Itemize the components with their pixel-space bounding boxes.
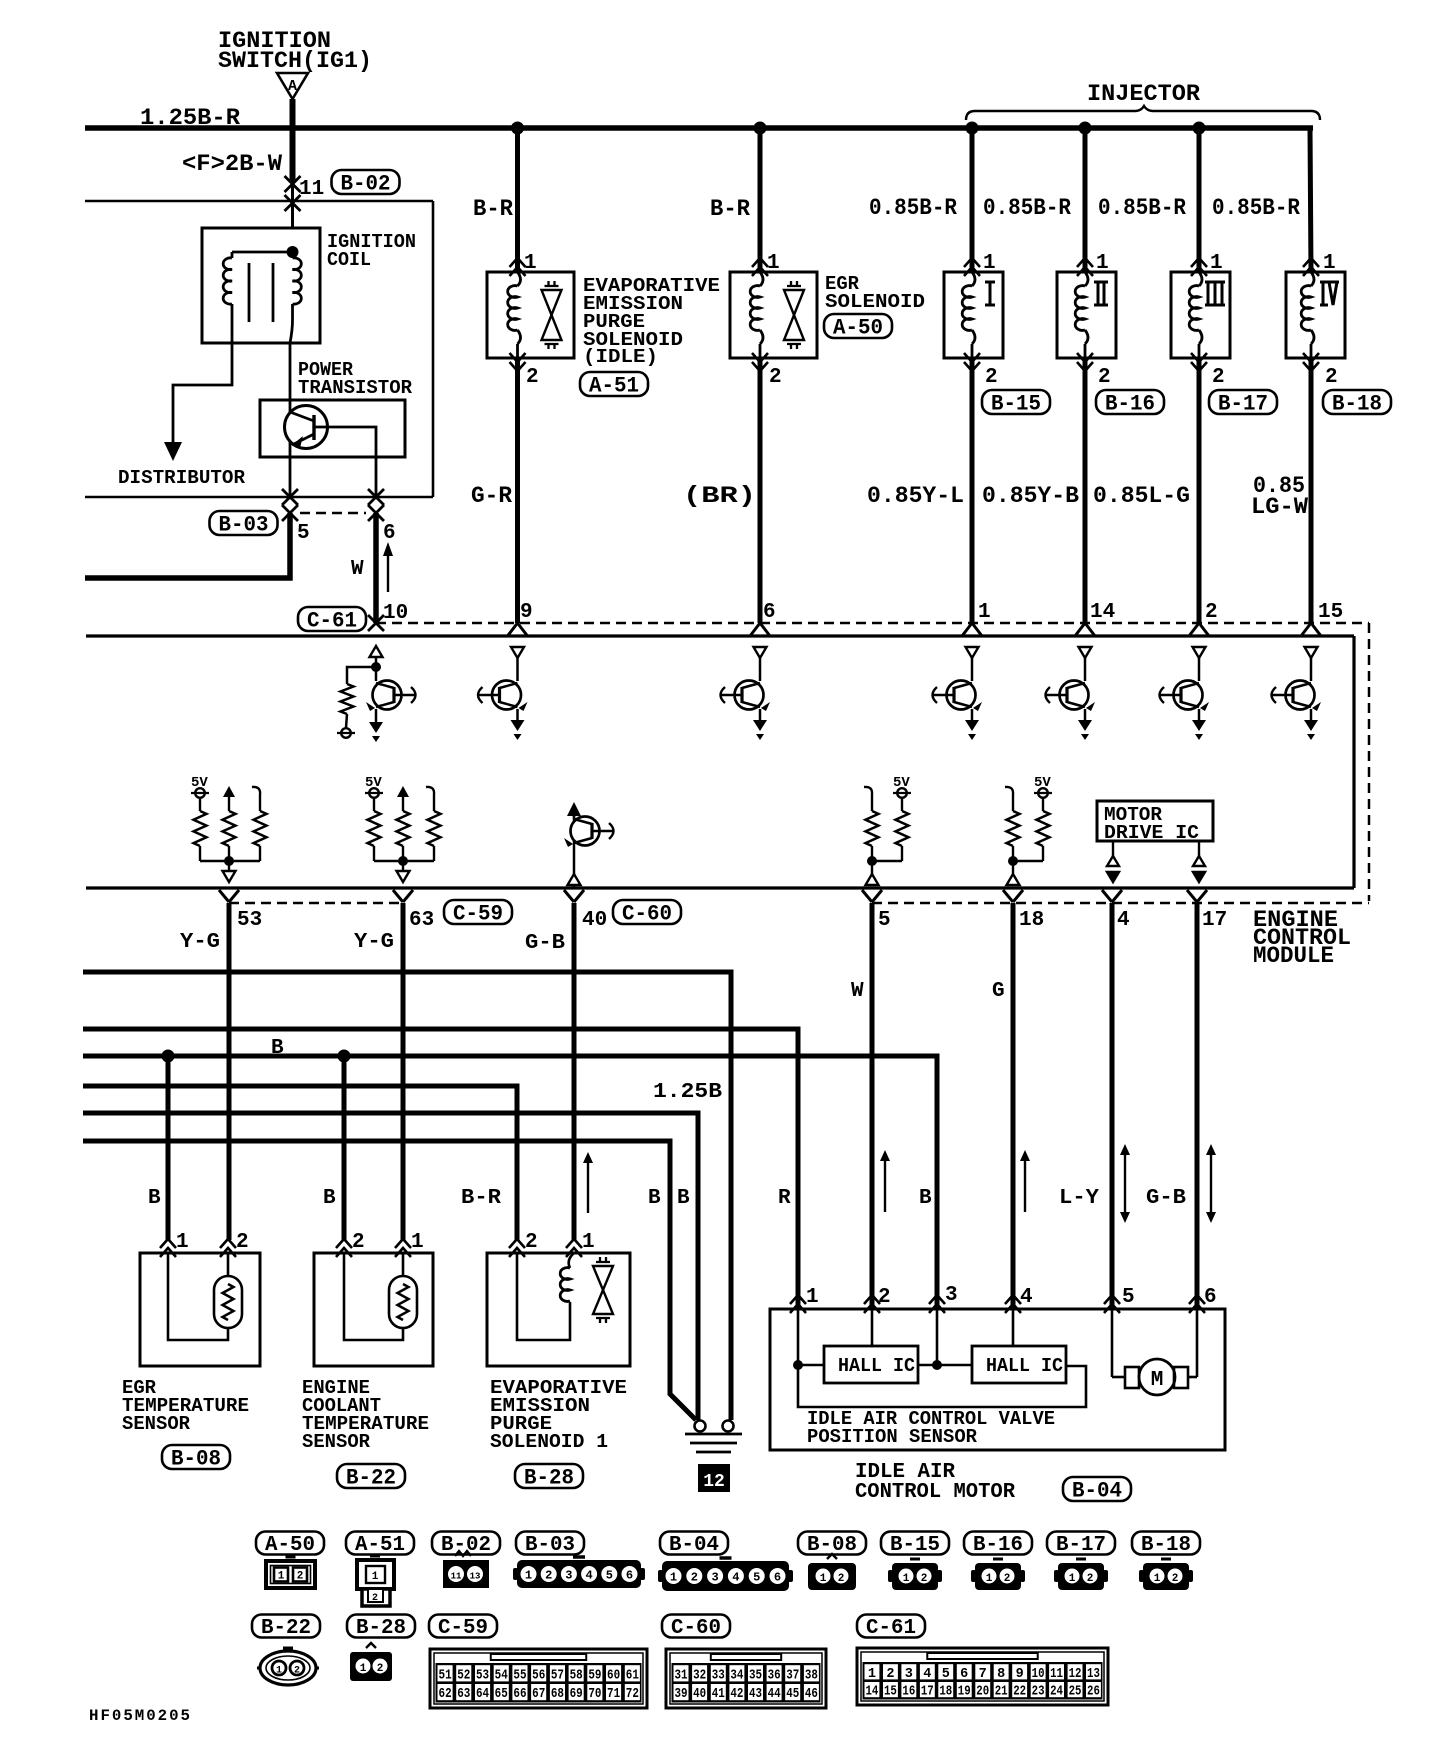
IAC motor M	[1111, 1309, 1114, 1377]
svg-text:67: 67	[532, 1687, 545, 1702]
distributor arrow	[164, 442, 182, 461]
connector table B-15	[881, 1532, 949, 1555]
wire rail to evaporative purge solenoid (idle)	[515, 128, 520, 272]
svg-text:0.85Y-L: 0.85Y-L	[867, 483, 964, 509]
svg-text:2: 2	[1205, 601, 1218, 624]
svg-text:5: 5	[1122, 1286, 1135, 1309]
bus line B-R to evap solenoid1 pin2	[83, 1086, 517, 1240]
svg-text:(IDLE): (IDLE)	[583, 346, 658, 368]
svg-text:20: 20	[976, 1685, 989, 1700]
svg-text:6: 6	[960, 1667, 968, 1682]
IAC pin 2 connector mark	[864, 1295, 880, 1313]
svg-text:4: 4	[923, 1667, 931, 1682]
IAC position sensor hall IC 1	[824, 1346, 918, 1383]
ECM input transistor at x=972	[966, 647, 979, 658]
connector label C-60	[613, 900, 681, 924]
svg-text:1: 1	[806, 1286, 819, 1309]
svg-text:25: 25	[1069, 1685, 1082, 1700]
svg-text:2: 2	[377, 1663, 384, 1675]
wire G-B pin17 to IAC pin6	[1195, 903, 1200, 1309]
wire evap solenoid to ECM pin 9 G-R	[515, 358, 520, 623]
connector label B-15	[982, 390, 1050, 414]
svg-text:37: 37	[786, 1668, 799, 1683]
ECM bottom pin 5 connector mark	[862, 890, 882, 902]
connector table B-03	[516, 1532, 584, 1555]
svg-text:A-51: A-51	[355, 1534, 405, 1557]
svg-text:54: 54	[495, 1668, 508, 1683]
bus line B with junctions to sensors and IAC pin3	[83, 1056, 937, 1309]
svg-text:B: B	[323, 1187, 336, 1210]
svg-text:0.85B-R: 0.85B-R	[983, 195, 1071, 221]
wire from ignition switch down to ignition coil	[290, 99, 296, 180]
power transistor Q1	[285, 406, 328, 449]
svg-text:2: 2	[985, 366, 998, 389]
evaporative emission purge solenoid (idle) A-51	[487, 272, 574, 358]
coolant temp sensor thermistor	[389, 1276, 417, 1328]
injector 1	[944, 272, 1003, 358]
svg-text:8: 8	[997, 1667, 1005, 1682]
svg-text:COIL: COIL	[327, 249, 371, 271]
wire B to coolant temp sensor pin2	[342, 1056, 347, 1240]
svg-text:56: 56	[532, 1668, 545, 1683]
svg-text:51: 51	[439, 1668, 452, 1683]
svg-text:INJECTOR: INJECTOR	[1087, 81, 1200, 107]
svg-text:6: 6	[626, 1569, 633, 1583]
svg-text:B-16: B-16	[1105, 391, 1155, 416]
svg-text:6: 6	[774, 1571, 781, 1585]
svg-text:15: 15	[1318, 601, 1343, 624]
svg-text:B-28: B-28	[356, 1617, 406, 1640]
ECM bottom pin 53 connector mark	[219, 890, 239, 902]
svg-text:11: 11	[451, 1572, 462, 1582]
svg-text:2: 2	[769, 366, 782, 389]
connector table B-22	[252, 1615, 320, 1638]
svg-text:6: 6	[763, 601, 776, 624]
connector table A-50	[256, 1532, 324, 1555]
ground bus line B (top)	[83, 972, 731, 1420]
current arrow up on W wire	[387, 554, 389, 592]
idle air control motor box	[770, 1309, 1225, 1450]
svg-text:33: 33	[712, 1668, 725, 1683]
svg-text:Y-G: Y-G	[180, 931, 220, 954]
wire G-B pin40 to evap purge solenoid1 pin1	[572, 903, 577, 1240]
wire rail corner to injector IV	[1310, 128, 1311, 272]
svg-text:4: 4	[585, 1569, 592, 1583]
svg-text:43: 43	[749, 1687, 762, 1702]
current arrow on G-B wire	[587, 1160, 589, 1213]
svg-text:B-04: B-04	[1072, 1478, 1122, 1503]
svg-text:SOLENOID: SOLENOID	[825, 291, 925, 313]
svg-text:52: 52	[457, 1668, 470, 1683]
wire injector IV to ECM pin 15 0.85LG-W	[1309, 358, 1314, 623]
svg-text:A-50: A-50	[265, 1534, 315, 1557]
svg-text:<F>2B-W: <F>2B-W	[182, 151, 282, 177]
svg-text:13: 13	[470, 1572, 481, 1582]
connector label A-50	[824, 314, 892, 338]
svg-text:7: 7	[979, 1667, 987, 1682]
ignition coil box	[202, 228, 320, 343]
svg-text:61: 61	[626, 1668, 639, 1683]
svg-text:70: 70	[588, 1687, 601, 1702]
ECM 5V divider pair at x=872	[864, 787, 872, 802]
svg-text:G-R: G-R	[471, 483, 512, 509]
wire coil secondary to distributor	[173, 343, 232, 444]
connector B-03 marks pin5 pin6	[282, 489, 298, 505]
ECM top pin 15 connector mark	[1301, 623, 1321, 636]
ECM driver transistor for pin 10	[370, 646, 383, 657]
connector label B-16	[1096, 390, 1164, 414]
connector table B-17	[1047, 1532, 1115, 1555]
svg-text:40: 40	[582, 909, 607, 932]
svg-text:B-22: B-22	[261, 1617, 311, 1640]
ECM input transistor for pin 40	[567, 802, 581, 816]
injector rail junctions	[966, 122, 979, 135]
svg-text:B-16: B-16	[973, 1534, 1023, 1557]
svg-text:58: 58	[570, 1668, 583, 1683]
wire Y-G pin63 to coolant temp sensor pin1	[401, 903, 406, 1240]
EGR solenoid A-50	[730, 272, 817, 358]
svg-text:3: 3	[905, 1667, 913, 1682]
IAC pin 5 connector mark	[1104, 1295, 1120, 1313]
svg-text:B-22: B-22	[346, 1465, 396, 1490]
current arrow on W wire	[884, 1158, 886, 1212]
svg-text:1: 1	[983, 252, 996, 275]
svg-text:4: 4	[732, 1571, 739, 1585]
svg-text:59: 59	[588, 1668, 601, 1683]
connector table B-04	[660, 1532, 728, 1555]
svg-text:TRANSISTOR: TRANSISTOR	[298, 377, 413, 399]
svg-text:B-18: B-18	[1332, 391, 1382, 416]
svg-text:1: 1	[868, 1667, 876, 1682]
svg-text:31: 31	[675, 1668, 688, 1683]
svg-text:W: W	[851, 980, 864, 1003]
svg-text:63: 63	[409, 909, 434, 932]
svg-text:3: 3	[945, 1284, 958, 1307]
connector table A-51	[346, 1532, 414, 1555]
wire rail to EGR solenoid	[758, 128, 763, 272]
connector table C-61	[857, 1615, 925, 1638]
connector table C-59	[429, 1615, 497, 1638]
connector table B-28	[347, 1615, 415, 1638]
svg-text:10: 10	[383, 602, 408, 625]
svg-text:57: 57	[551, 1668, 564, 1683]
svg-text:14: 14	[1090, 601, 1115, 624]
svg-text:2: 2	[1172, 1573, 1179, 1585]
svg-text:POSITION SENSOR: POSITION SENSOR	[807, 1426, 978, 1448]
svg-text:12: 12	[703, 1472, 725, 1492]
bus line R to IAC pin1	[83, 1029, 798, 1309]
wire pin5 to left (thick)	[85, 513, 290, 578]
svg-text:1.25B: 1.25B	[653, 1081, 722, 1104]
svg-text:L-Y: L-Y	[1059, 1187, 1099, 1210]
svg-text:B: B	[271, 1037, 284, 1060]
power rail 1.25B-R	[85, 125, 1313, 131]
svg-text:SOLENOID 1: SOLENOID 1	[490, 1431, 608, 1453]
svg-text:1: 1	[903, 1573, 910, 1585]
double arrow on L-Y wire	[1124, 1152, 1126, 1215]
svg-text:1: 1	[1323, 252, 1336, 275]
svg-text:2: 2	[1098, 366, 1111, 389]
svg-text:19: 19	[958, 1685, 971, 1700]
motor drive IC output to pin 17	[1198, 841, 1200, 856]
svg-text:13: 13	[1087, 1667, 1100, 1682]
svg-text:2: 2	[526, 366, 539, 389]
svg-text:B-15: B-15	[890, 1534, 940, 1557]
svg-text:72: 72	[626, 1687, 639, 1702]
svg-text:DRIVE IC: DRIVE IC	[1104, 822, 1199, 844]
svg-text:65: 65	[495, 1687, 508, 1702]
svg-text:R: R	[778, 1187, 791, 1210]
ECM top pin 2 connector mark	[1189, 623, 1209, 636]
ECM pin 10 connector mark	[368, 615, 384, 631]
svg-text:(BR): (BR)	[683, 483, 756, 509]
svg-text:71: 71	[607, 1687, 620, 1702]
svg-text:35: 35	[749, 1668, 762, 1683]
svg-text:1: 1	[360, 1663, 367, 1675]
svg-text:2: 2	[1325, 366, 1338, 389]
node rail junction EGR solenoid	[754, 122, 767, 135]
svg-text:B-03: B-03	[525, 1534, 575, 1557]
connector table B-02	[432, 1532, 500, 1555]
wire coil to power transistor	[289, 343, 292, 497]
connector triangle A (ignition switch IG1)	[277, 73, 308, 99]
svg-text:1: 1	[767, 252, 780, 275]
evap solenoid1 coil and valve	[569, 1253, 574, 1268]
wires rail to injectors I II III	[970, 128, 975, 272]
svg-text:W: W	[351, 558, 364, 581]
svg-text:C-61: C-61	[866, 1617, 916, 1640]
svg-text:SWITCH(IG1): SWITCH(IG1)	[218, 48, 372, 74]
svg-text:SENSOR: SENSOR	[122, 1413, 191, 1435]
svg-text:5: 5	[878, 909, 891, 932]
svg-text:B: B	[148, 1187, 161, 1210]
bus line B to ground (diagonal)	[83, 1141, 696, 1420]
connector label B-04	[1063, 1477, 1131, 1501]
connector label B-08	[162, 1445, 230, 1469]
connector label B-22	[337, 1464, 405, 1488]
ECM bottom pin 40 connector mark	[564, 890, 584, 902]
svg-text:6: 6	[1204, 1286, 1217, 1309]
EGR temp sensor thermistor	[214, 1276, 242, 1328]
svg-text:60: 60	[607, 1668, 620, 1683]
svg-text:18: 18	[939, 1685, 952, 1700]
svg-text:36: 36	[768, 1668, 781, 1683]
svg-text:0.85L-G: 0.85L-G	[1093, 483, 1190, 509]
connector table C-60	[662, 1615, 730, 1638]
ECM top pin 14 connector mark	[1075, 623, 1095, 636]
svg-text:53: 53	[237, 909, 262, 932]
svg-text:B-15: B-15	[991, 391, 1041, 416]
svg-text:16: 16	[902, 1685, 915, 1700]
svg-text:9: 9	[1016, 1667, 1024, 1682]
ECM input transistor at x=1199	[1193, 647, 1206, 658]
svg-text:1.25B-R: 1.25B-R	[140, 105, 240, 131]
svg-text:1: 1	[986, 1573, 993, 1585]
connector label A-51	[580, 372, 648, 396]
svg-text:17: 17	[921, 1685, 934, 1700]
svg-text:B-04: B-04	[669, 1534, 719, 1557]
svg-text:12: 12	[1069, 1667, 1082, 1682]
ECM top pin 1 connector mark	[962, 623, 982, 636]
svg-text:21: 21	[995, 1685, 1008, 1700]
svg-text:1: 1	[1096, 252, 1109, 275]
svg-text:22: 22	[1013, 1685, 1026, 1700]
svg-text:2: 2	[297, 1571, 304, 1583]
current arrow on G wire	[1024, 1158, 1026, 1212]
connector label B-18	[1323, 390, 1391, 414]
svg-text:1: 1	[411, 1231, 424, 1254]
svg-text:40: 40	[693, 1687, 706, 1702]
svg-text:63: 63	[457, 1687, 470, 1702]
svg-text:G: G	[992, 980, 1005, 1003]
IAC position sensor hall IC 2	[972, 1346, 1066, 1383]
svg-text:18: 18	[1019, 909, 1044, 932]
svg-text:9: 9	[520, 601, 533, 624]
connector table B-08	[798, 1532, 866, 1555]
wire Y-G pin53 to EGR temp sensor pin2	[227, 903, 232, 1240]
svg-text:A-50: A-50	[833, 315, 883, 340]
svg-text:C-59: C-59	[453, 901, 503, 926]
IAC internal wires	[797, 1309, 800, 1365]
svg-text:B-17: B-17	[1056, 1534, 1106, 1557]
svg-text:1: 1	[820, 1573, 827, 1585]
svg-text:C-61: C-61	[307, 608, 357, 633]
connector label B-03	[210, 511, 278, 535]
svg-text:68: 68	[551, 1687, 564, 1702]
svg-text:69: 69	[570, 1687, 583, 1702]
svg-text:SENSOR: SENSOR	[302, 1431, 371, 1453]
svg-text:3: 3	[711, 1571, 718, 1585]
svg-text:2: 2	[525, 1231, 538, 1254]
svg-text:1: 1	[582, 1231, 595, 1254]
svg-text:B-R: B-R	[461, 1187, 501, 1210]
svg-text:10: 10	[1032, 1667, 1045, 1682]
wire injector III to ECM pin 2 0.85L-G	[1197, 358, 1202, 623]
svg-text:MODULE: MODULE	[1253, 943, 1334, 969]
svg-text:C-60: C-60	[622, 901, 672, 926]
svg-text:B-R: B-R	[710, 196, 750, 222]
svg-text:B-17: B-17	[1218, 391, 1268, 416]
svg-text:34: 34	[730, 1668, 743, 1683]
wire injector I to ECM pin 1 0.85Y-L	[970, 358, 975, 623]
svg-text:23: 23	[1032, 1685, 1045, 1700]
ECM top pin 9 connector mark	[508, 623, 528, 636]
bus line 1.25B to ground	[83, 1113, 698, 1420]
connector label C-61	[298, 607, 366, 631]
ECM 5V divider pair at x=1013	[1005, 787, 1013, 802]
svg-text:C-60: C-60	[671, 1617, 721, 1640]
connector label C-59	[444, 900, 512, 924]
ECM input transistor at x=517.5	[511, 647, 524, 658]
node: coil primary top junction	[287, 246, 299, 258]
svg-text:2: 2	[838, 1573, 845, 1585]
ECM bottom pin 17 connector mark	[1187, 890, 1207, 902]
svg-text:2: 2	[352, 1231, 365, 1254]
svg-text:2: 2	[1004, 1573, 1011, 1585]
svg-text:53: 53	[476, 1668, 489, 1683]
svg-text:B-18: B-18	[1141, 1534, 1191, 1557]
svg-text:0.85Y-B: 0.85Y-B	[982, 483, 1079, 509]
svg-text:2: 2	[1087, 1573, 1094, 1585]
svg-text:38: 38	[805, 1668, 818, 1683]
svg-text:HALL IC: HALL IC	[838, 1355, 915, 1377]
svg-text:1: 1	[1154, 1573, 1161, 1585]
EGR temperature sensor box	[140, 1253, 260, 1366]
IAC pin 6 connector mark	[1189, 1295, 1205, 1313]
svg-text:3: 3	[565, 1569, 572, 1583]
svg-text:39: 39	[675, 1687, 688, 1702]
svg-text:B-02: B-02	[341, 171, 391, 196]
ECM bottom pin 4 connector mark	[1102, 890, 1122, 902]
svg-text:4: 4	[1020, 1286, 1033, 1309]
ECM top pin 6 connector mark	[750, 623, 770, 636]
svg-text:CONTROL MOTOR: CONTROL MOTOR	[855, 1481, 1015, 1504]
svg-text:1: 1	[524, 252, 537, 275]
svg-text:0.85B-R: 0.85B-R	[1098, 195, 1186, 221]
ECM input transistor at x=1311	[1305, 647, 1318, 658]
wire W pin5 to IAC pin2	[870, 903, 875, 1309]
svg-text:0.85B-R: 0.85B-R	[1212, 195, 1300, 221]
svg-text:32: 32	[693, 1668, 706, 1683]
svg-text:45: 45	[786, 1687, 799, 1702]
svg-text:64: 64	[476, 1687, 489, 1702]
connector table B-18	[1132, 1532, 1200, 1555]
svg-text:HF05M0205: HF05M0205	[89, 1707, 192, 1725]
MOTOR DRIVE IC box	[1097, 801, 1213, 841]
svg-text:1: 1	[978, 601, 991, 624]
svg-text:44: 44	[768, 1687, 781, 1702]
engine control module dashed connector boundary	[376, 622, 1369, 625]
power transistor box	[260, 400, 405, 457]
injector 4	[1286, 272, 1345, 358]
injector 3	[1171, 272, 1230, 358]
svg-text:2: 2	[1212, 366, 1225, 389]
connector label B-17	[1209, 390, 1277, 414]
svg-text:B: B	[648, 1187, 661, 1210]
svg-text:26: 26	[1087, 1685, 1100, 1700]
svg-text:DISTRIBUTOR: DISTRIBUTOR	[118, 467, 246, 489]
svg-text:G-B: G-B	[1146, 1187, 1186, 1210]
ECM input transistor at x=760	[754, 647, 767, 658]
svg-text:2: 2	[878, 1286, 891, 1309]
svg-text:1: 1	[670, 1571, 677, 1585]
power transistor base wire to pin 6	[314, 427, 376, 497]
double arrow on G-B wire	[1210, 1152, 1212, 1215]
svg-text:2: 2	[372, 1593, 378, 1604]
connector label B-28	[515, 1464, 583, 1488]
injector 2	[1057, 272, 1116, 358]
ECM input transistor at x=1085	[1079, 647, 1092, 658]
connector label B-02	[332, 170, 400, 194]
svg-text:2: 2	[921, 1573, 928, 1585]
svg-text:Y-G: Y-G	[354, 931, 394, 954]
svg-text:M: M	[1151, 1369, 1164, 1392]
svg-text:C-59: C-59	[438, 1617, 488, 1640]
svg-text:1: 1	[525, 1569, 532, 1583]
svg-text:15: 15	[884, 1685, 897, 1700]
connector B-02 pin 11 marks	[285, 176, 301, 192]
engine coolant temperature sensor box	[314, 1253, 433, 1366]
svg-text:6: 6	[383, 522, 396, 545]
svg-text:B: B	[677, 1187, 690, 1210]
IAC pin 1 connector mark	[790, 1295, 806, 1313]
svg-text:B-08: B-08	[171, 1446, 221, 1471]
svg-text:A-51: A-51	[589, 373, 639, 398]
ECM bottom pin 18 connector mark	[1003, 890, 1023, 902]
wire W pin6 to ECM pin10	[373, 513, 379, 623]
svg-text:A: A	[288, 78, 297, 95]
svg-text:1: 1	[1069, 1573, 1076, 1585]
